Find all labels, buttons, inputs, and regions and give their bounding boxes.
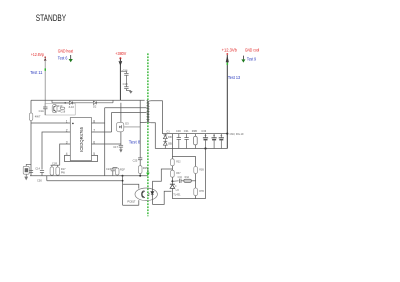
output rectifier dual diode D30 <box>163 134 167 149</box>
svg-text:C14: C14 <box>35 167 40 171</box>
svg-text:C50: C50 <box>37 179 42 183</box>
optocoupler U2 PC817 <box>135 188 157 201</box>
series C34 R3A branch <box>172 179 195 183</box>
wire secondary bottom to ground rail <box>151 123 156 149</box>
svg-text:Test 13: Test 13 <box>228 75 241 80</box>
capacitor C17 <box>119 145 123 149</box>
resistor R38 <box>194 134 198 149</box>
svg-text:TL431: TL431 <box>173 192 181 196</box>
svg-text:C1R: C1R <box>52 162 57 165</box>
svg-text:PW: PW <box>61 172 66 175</box>
capacitor C1A on +12.6 line <box>43 107 47 115</box>
capacitor C14 <box>40 171 44 176</box>
supply +12.7Vb arrow <box>226 53 229 62</box>
transformer T1 primary winding <box>140 100 148 122</box>
ground symbol GND heat <box>69 55 73 62</box>
resistor R25 <box>138 166 142 174</box>
wire +12.6Vp down <box>44 60 46 107</box>
wire opto emitter loop <box>123 204 139 206</box>
svg-text:U3: U3 <box>176 189 180 192</box>
svg-text:R7B: R7B <box>199 190 204 193</box>
wire R3B lower to bottom rail <box>195 196 197 199</box>
svg-text:R2F: R2F <box>120 167 125 171</box>
primary ground bus y183.2 <box>47 180 123 182</box>
svg-text:+380V: +380V <box>115 51 126 56</box>
wire ground rail down right side <box>205 149 207 199</box>
wire opto LED anode to divider tap <box>153 169 173 189</box>
transformer T1 secondary winding <box>148 101 151 123</box>
output ground rail y148.5 <box>155 148 227 150</box>
svg-text:PC817: PC817 <box>127 199 135 203</box>
svg-text:Z-10: Z-10 <box>69 105 75 109</box>
electrolytic C35o <box>219 134 224 149</box>
junction dot ground rail <box>204 147 206 149</box>
aux supply sub-box <box>45 103 75 115</box>
svg-text:R25: R25 <box>143 166 148 170</box>
svg-text:C31: C31 <box>184 129 189 133</box>
resistor R3B upper <box>194 167 198 174</box>
svg-text:+12.6Vp: +12.6Vp <box>31 52 45 57</box>
svg-text:C17: C17 <box>113 145 118 149</box>
wire R37 to tap <box>171 177 173 184</box>
primary ground bus y175.8 <box>30 175 148 177</box>
svg-text:C33: C33 <box>201 129 206 133</box>
svg-text:C18: C18 <box>123 82 128 86</box>
wire R3B to mid <box>195 174 197 189</box>
svg-text:GND heat: GND heat <box>58 49 74 54</box>
svg-text:R37: R37 <box>176 172 181 175</box>
wire x122.5 bus1-bus2 <box>122 176 124 206</box>
optocoupler interior phototransistor <box>142 191 145 198</box>
wire opto emitter stub <box>123 184 139 188</box>
wire drain rail y110.8 <box>105 107 147 109</box>
snubber chain C25 R25 <box>138 100 142 166</box>
svg-text:C25: C25 <box>133 158 138 162</box>
resistor R14 boxed horizontal <box>60 107 65 109</box>
Y-capacitor C15 <box>23 164 31 176</box>
optocoupler interior LED <box>148 189 154 198</box>
wire pin3 <box>60 144 71 165</box>
svg-text:C34: C34 <box>178 177 183 179</box>
diode D3 startup box <box>116 103 140 132</box>
svg-text:R3B: R3B <box>192 129 197 133</box>
wire vertical x111.5 <box>111 113 113 133</box>
wire vertical x104.7 <box>104 108 106 176</box>
svg-text:Test 8: Test 8 <box>129 139 141 144</box>
resistor R12 on left edge <box>29 113 33 121</box>
wire pin8 <box>92 122 105 124</box>
test point marker green on +12.6 line <box>45 68 47 70</box>
svg-text:Test 9: Test 9 <box>247 57 257 62</box>
electrolytic C33 <box>203 134 208 149</box>
junction dot +12.7 rail <box>226 133 228 135</box>
junction dot bus1 x140 <box>139 175 141 177</box>
svg-text:C24: C24 <box>106 167 111 171</box>
capacitor C24 <box>111 168 118 176</box>
IC U1 ICE2QR4765 <box>70 118 91 161</box>
svg-text:GND cool: GND cool <box>245 47 259 52</box>
ground arrow below C17 <box>119 149 122 152</box>
svg-text:C18: C18 <box>60 110 65 114</box>
isolation barrier (green dashed line) <box>147 53 149 216</box>
capacitor C31 <box>184 134 188 149</box>
shunt regulator U3 TL431 <box>170 184 177 198</box>
supply +380V arrow <box>119 57 122 64</box>
svg-text:C30: C30 <box>176 129 181 133</box>
wire aux diode row y102.8 <box>52 100 113 103</box>
svg-text:ICE2QR4765: ICE2QR4765 <box>79 126 84 152</box>
capacitor C30 <box>177 134 181 149</box>
output rail +12.7 y133.6 <box>162 133 227 135</box>
wire divider top branch <box>172 157 195 167</box>
wire +380V down <box>119 59 121 100</box>
junction dot bus1 x122.5 <box>122 175 124 177</box>
wire drain rail y112.8 <box>112 112 147 114</box>
test point marker green on +12.7 line <box>227 63 229 65</box>
wire pin6 <box>92 143 121 145</box>
resistor R32 <box>171 159 175 166</box>
ground symbol bottom left <box>24 177 28 181</box>
diode D2 <box>93 101 96 104</box>
wire D3 to C17 <box>120 132 122 146</box>
capacitor C17b <box>124 87 131 91</box>
wire opto LED cathode loop <box>153 191 172 204</box>
svg-text:R3A: R3A <box>185 176 190 179</box>
wire pin2 <box>42 132 70 170</box>
svg-text:D3: D3 <box>125 122 129 126</box>
resistor R37 <box>171 170 175 177</box>
green ground marker at barrier <box>146 169 150 176</box>
ground symbol Test 9 <box>241 56 245 63</box>
diode D1 <box>69 101 72 104</box>
wire secondary top to rectifier <box>151 101 163 134</box>
resistor R3B lower <box>194 188 198 196</box>
wire R32-R37 <box>171 166 173 170</box>
junction dot tap <box>171 180 173 182</box>
svg-text:D2: D2 <box>93 105 97 109</box>
svg-text:C16: C16 <box>123 69 128 73</box>
svg-text:+12.3Vb: +12.3Vb <box>222 47 238 52</box>
electrolytic C34o <box>212 134 217 149</box>
capacitor on left edge <box>29 171 33 173</box>
svg-text:R3B: R3B <box>199 168 204 171</box>
junction dot bus2 x122.5 <box>122 180 124 182</box>
ground symbol at 380V caps <box>129 91 133 94</box>
svg-text:Test 6: Test 6 <box>58 56 68 61</box>
transistor Q1 aux <box>52 105 57 113</box>
wire top rail y100 <box>31 99 145 101</box>
wire R25 to opto <box>139 173 141 175</box>
svg-text:C3: C3 <box>166 130 170 133</box>
wire +12.7Vb down <box>226 55 228 149</box>
svg-text:CN3, FIG.19: CN3, FIG.19 <box>230 132 244 136</box>
sense resistor pair R17 <box>51 165 60 176</box>
svg-text:4W7: 4W7 <box>35 115 41 119</box>
supply +12.6Vp arrow <box>44 56 47 60</box>
feedback bottom rail <box>172 198 205 200</box>
resistor R24 <box>115 168 119 175</box>
svg-text:STANDBY: STANDBY <box>36 13 67 24</box>
svg-text:R32: R32 <box>176 161 181 164</box>
wire left edge vertical x31 <box>30 100 32 176</box>
wire pin4 to pin5 loop <box>65 155 98 161</box>
capacitor C16 branch from +380V <box>120 71 128 87</box>
node dot aux out <box>64 102 66 104</box>
svg-text:Test 11: Test 11 <box>30 70 43 75</box>
wire bus1 to bus2 jog x47 <box>46 176 48 181</box>
feedback divider vertical <box>171 134 173 159</box>
svg-text:C1A: C1A <box>39 109 44 113</box>
wire pin7 <box>92 131 112 133</box>
wire pin1 <box>31 122 70 124</box>
